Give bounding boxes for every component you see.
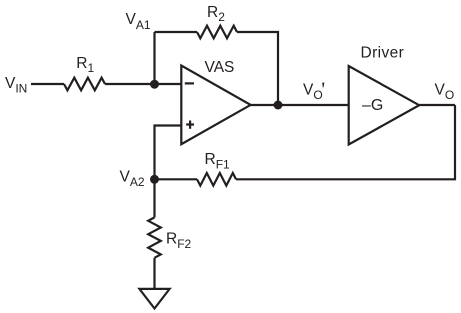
wire: R1 to VAS inverting input [105,83,181,85]
ground [139,289,169,309]
amplifier U2 Driver [349,66,420,145]
VAS inverting pin marker (minus) [185,82,194,84]
prime mark of VO' [322,83,324,88]
resistor R1 [64,78,105,91]
junction: VAS output node [274,101,283,110]
wire: VA2 down to RF2 [153,179,155,217]
svg-text:–G: –G [362,97,383,114]
junction: VAS inverting input node [150,80,159,89]
svg-text:Driver: Driver [361,45,405,62]
wire: top feedback right segment down to VAS output [237,32,278,105]
wire: VAS output to driver input [251,104,349,106]
wire: VO down and back along feedback to RF1 [236,105,455,179]
resistor RF2 [148,217,161,257]
VAS non-inverting pin marker (plus) [186,121,194,129]
wire: RF1 to node VA2 [155,178,198,180]
wire: RF2 to ground [153,258,155,289]
op-amp U1 VAS [181,66,250,145]
wire: VA2 node to VAS non-inverting input [155,126,182,180]
wire: driver output to VO [419,104,455,106]
wire: VIN to resistor R1 [31,83,64,85]
svg-text:VAS: VAS [205,59,235,76]
wire: top feedback left segment [155,31,198,33]
resistor RF1 [197,173,236,186]
resistor R2 [197,26,237,39]
junction: node VA2 [150,175,159,184]
wire: node VA1 riser [153,32,155,84]
